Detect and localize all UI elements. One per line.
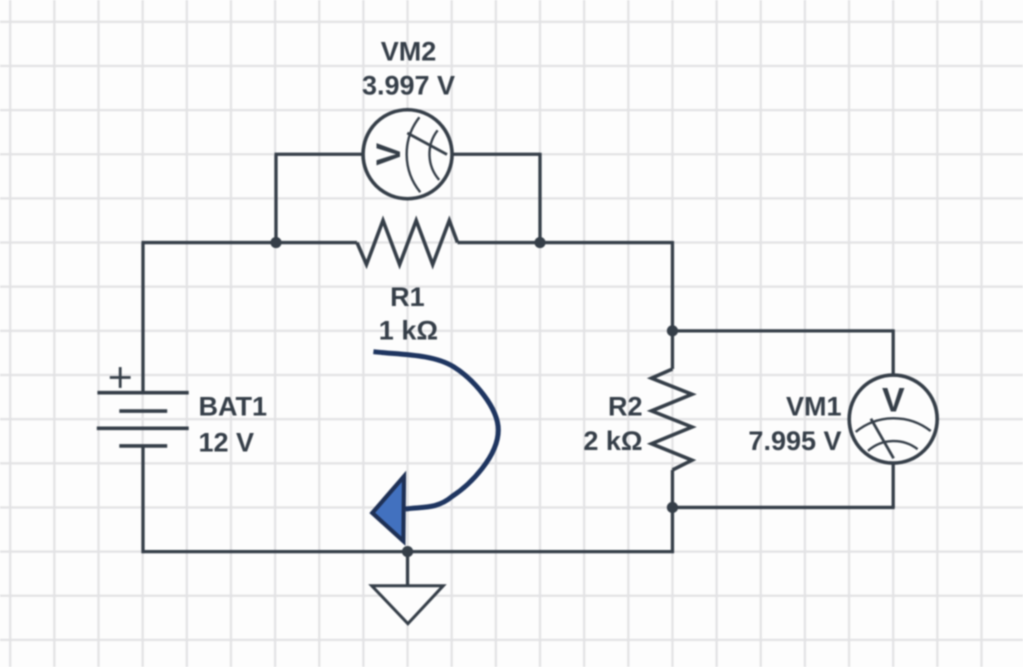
voltmeter VM2 small scale arc — [429, 130, 439, 180]
wire VM2 branch left vertical — [274, 154, 277, 242]
battery BAT1 plate 1 (long) — [97, 391, 188, 395]
current loop arrowhead — [372, 476, 404, 541]
voltmeter VM2 needle — [407, 133, 447, 155]
wire right vertical lower (R2 to bottom corner) — [671, 470, 674, 553]
battery BAT1 plate 4 (short) — [119, 444, 167, 448]
battery plus sign — [110, 367, 131, 388]
svg-text:12 V: 12 V — [199, 427, 255, 457]
svg-text:7.995 V: 7.995 V — [748, 426, 841, 456]
current loop arc — [373, 352, 498, 509]
wire VM1 branch top horizontal — [672, 329, 893, 332]
wire top horizontal right (R1 to right corner) — [458, 241, 673, 244]
wire right vertical (top corner to R2) — [671, 241, 674, 369]
svg-text:R1: R1 — [390, 282, 425, 312]
voltmeter VM1 small scale arc — [868, 441, 918, 451]
junction dot (R1 left / VM2 left) — [270, 237, 281, 248]
voltmeter VM1 needle — [871, 419, 894, 459]
wire left vertical lower (battery to bottom corner) — [141, 446, 144, 553]
resistor R2 — [652, 369, 693, 470]
svg-text:VM1: VM1 — [786, 391, 842, 421]
voltmeter VM2 circle — [363, 110, 452, 199]
svg-text:1 kΩ: 1 kΩ — [379, 315, 438, 345]
voltmeter VM1 big scale arc — [856, 418, 931, 432]
wire top horizontal left (corner to R1) — [142, 241, 358, 244]
junction dot (ground) — [402, 546, 413, 557]
wire bottom horizontal — [142, 550, 674, 553]
svg-text:2 kΩ: 2 kΩ — [583, 426, 642, 456]
junction dot (R2 bottom / VM1 bottom) — [667, 502, 678, 513]
svg-text:3.997 V: 3.997 V — [362, 70, 455, 100]
wire left vertical (battery to top corner) — [141, 243, 144, 393]
svg-text:VM2: VM2 — [381, 37, 437, 67]
ground stem — [406, 552, 409, 586]
battery BAT1 plate 2 (short) — [119, 409, 167, 413]
junction dot (R2 top / VM1 top) — [667, 325, 678, 336]
svg-text:V: V — [370, 143, 408, 166]
svg-text:BAT1: BAT1 — [199, 392, 268, 422]
svg-text:V: V — [882, 382, 905, 420]
wire VM1 branch right upper vertical — [892, 329, 895, 375]
battery BAT1 plate 3 (long) — [97, 426, 189, 430]
wire VM2 branch top right horizontal — [452, 153, 540, 156]
wire VM2 branch right vertical — [538, 153, 541, 243]
wire VM2 branch top left horizontal — [275, 153, 364, 156]
wire VM1 branch right lower vertical — [892, 463, 895, 508]
resistor R1 — [357, 221, 458, 265]
wire VM1 branch bottom horizontal — [672, 506, 894, 509]
voltmeter VM2 big scale arc — [407, 117, 421, 192]
junction dot (R1 right / VM2 right) — [534, 237, 545, 248]
voltmeter VM1 circle — [849, 375, 937, 463]
ground triangle — [372, 586, 444, 624]
svg-text:R2: R2 — [608, 391, 643, 421]
